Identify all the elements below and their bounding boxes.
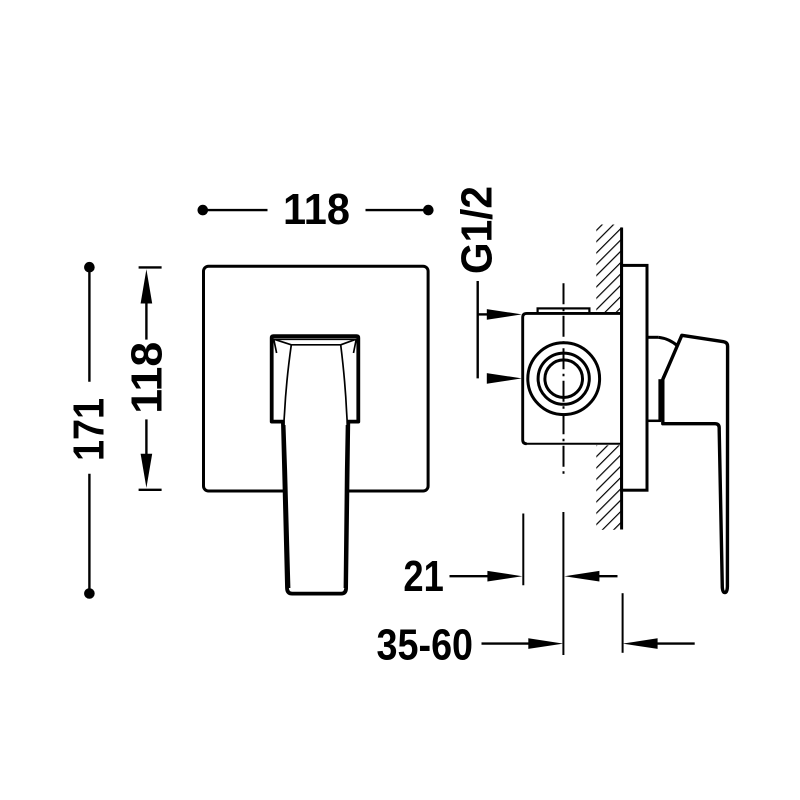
vertical center line (dash-dot) [563, 283, 565, 474]
svg-text:118: 118 [124, 342, 172, 414]
svg-text:171: 171 [66, 398, 114, 461]
valve body connection tab [538, 308, 590, 313]
front escutcheon plate [204, 266, 429, 491]
svg-text:118: 118 [283, 186, 350, 234]
valve body box [523, 313, 622, 443]
dimension 21 [403, 553, 617, 601]
dimension 118 vertical (arrows + ticks) [124, 267, 172, 489]
side escutcheon plate [622, 265, 647, 490]
dimension 35-60 [377, 621, 695, 669]
handle body + lever (side view) [663, 335, 728, 592]
svg-text:G1/2: G1/2 [454, 186, 502, 274]
extension line from wall surface [622, 593, 624, 653]
wall section hatching (bottom) [596, 445, 621, 530]
dimension G1/2 leader with two arrows [454, 186, 522, 384]
svg-text:21: 21 [403, 553, 443, 601]
handle front view (base + lever), white filled over plate [272, 336, 359, 593]
valve cartridge circles [528, 343, 600, 415]
wall surface line [620, 228, 623, 530]
extension line from valve left edge [522, 514, 524, 586]
extension line from center (solid) [562, 512, 564, 655]
dimension 118 top (dots) [198, 186, 434, 234]
handle hub (side view) [647, 336, 682, 421]
dimension 171 left (dots) [66, 262, 114, 599]
wall section hatching (top) [596, 225, 621, 313]
handle front inner chamfer lines [274, 339, 357, 589]
svg-text:35-60: 35-60 [377, 621, 474, 669]
